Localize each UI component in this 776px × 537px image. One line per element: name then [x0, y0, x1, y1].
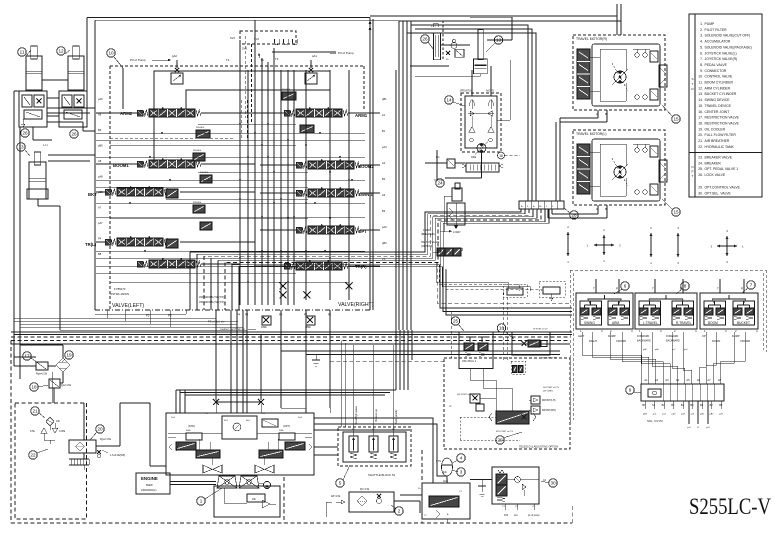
svg-text:2P PORT of C/V: 2P PORT of C/V: [533, 329, 548, 331]
svg-text:L.L.I: L.L.I: [43, 143, 48, 147]
top link to travel motors: [369, 4, 621, 35]
svg-text:BREAKER: BREAKER: [705, 161, 722, 165]
svg-text:ARM CYLINDER: ARM CYLINDER: [705, 86, 731, 90]
svg-text:TELESCO & ADJUSTING OPTION: TELESCO & ADJUSTING OPTION: [519, 446, 558, 449]
svg-text:JOYSTICK VALVE(L): JOYSTICK VALVE(L): [705, 51, 737, 55]
pump regulator center: [222, 416, 278, 439]
svg-text:P: P: [616, 287, 618, 291]
svg-text:26: 26: [422, 37, 428, 42]
cv internal vertical wires: [240, 20, 349, 305]
svg-text:OSTRA JAPAN: OSTRA JAPAN: [110, 292, 129, 296]
svg-text:VALVE(LEFT): VALVE(LEFT): [112, 303, 144, 309]
svg-text:1.: 1.: [700, 22, 703, 26]
svg-text:Pgw=1.5k: Pgw=1.5k: [60, 384, 72, 387]
svg-text:pA4: pA4: [382, 145, 387, 149]
hose-break valve block 26 (right): [59, 91, 87, 127]
svg-text:30.: 30.: [698, 191, 703, 195]
svg-text:B4: B4: [681, 403, 685, 407]
svg-text:7: 7: [750, 283, 753, 288]
engine box: [136, 473, 170, 494]
svg-text:B2: B2: [662, 403, 666, 407]
mid horizontal wires left: [14, 310, 247, 330]
svg-text:FRONT(RH): FRONT(RH): [542, 409, 556, 412]
spool TR(L): [85, 236, 178, 248]
svg-text:A1: A1: [382, 113, 386, 117]
svg-text:17.: 17.: [698, 116, 703, 120]
circle 9: [626, 386, 641, 394]
svg-text:19: 19: [66, 353, 72, 358]
svg-text:T: T: [692, 82, 694, 86]
joystick to connector wires: [582, 332, 745, 384]
bottom dashed verticals: [284, 450, 422, 523]
svg-text:PG: PG: [436, 156, 440, 159]
svg-text:S255LC-V: S255LC-V: [689, 494, 771, 519]
svg-text:TRAVEL MOTOR(R): TRAVEL MOTOR(R): [576, 37, 607, 41]
optsel tank symbol: [470, 480, 492, 497]
svg-text:OIL COOLER: OIL COOLER: [705, 127, 726, 131]
opt pedal valve 1 box: [459, 332, 493, 369]
pump left regulator spools: [169, 430, 220, 458]
svg-text:pA7: pA7: [98, 221, 103, 225]
circle 5: [336, 465, 350, 487]
circle 29: [496, 432, 522, 444]
svg-text:(OPTION): (OPTION): [421, 245, 432, 248]
svg-text:A4: A4: [676, 378, 680, 382]
telesco inner wires: [460, 369, 531, 441]
svg-text:6: 6: [624, 284, 627, 289]
svg-text:2: 2: [398, 509, 401, 514]
svg-text:24.: 24.: [698, 161, 703, 165]
svg-text:PILOT FILTER: PILOT FILTER: [705, 28, 728, 32]
text std opt: [171, 413, 303, 428]
text P3 of Sol: [208, 320, 238, 324]
cv spool row connection lines: [96, 113, 380, 266]
circle 20: [90, 425, 104, 440]
svg-text:6.5k: 6.5k: [30, 430, 35, 433]
svg-text:L.L.I: L.L.I: [431, 25, 436, 28]
tank wires: [53, 372, 150, 470]
svg-text:(2P LINE): (2P LINE): [543, 391, 553, 393]
circle 3: [452, 468, 465, 476]
svg-text:pB1: pB1: [382, 97, 387, 101]
telesco solenoid valve: [489, 411, 536, 424]
swing pg valve: [425, 150, 455, 180]
solenoid pilot dashed lines: [230, 31, 259, 122]
staircase drop wires: [436, 262, 541, 291]
bucket cylinder 13: [410, 17, 512, 76]
svg-text:pB3: pB3: [382, 241, 387, 245]
svg-text:BREAKER VALVE: BREAKER VALVE: [705, 156, 733, 160]
full flow filter 20: [69, 438, 125, 458]
svg-text:11: 11: [20, 50, 25, 55]
svg-text:1: 1: [200, 499, 203, 504]
svg-text:CENTER JOINT: CENTER JOINT: [705, 110, 730, 114]
svg-text:365460L: 365460L: [193, 150, 202, 152]
svg-text:Pp=1.5k: Pp=1.5k: [360, 488, 370, 491]
solenoid relief pA1: [305, 60, 317, 84]
svg-text:365460L: 365460L: [200, 172, 209, 174]
regen valve arm2: [196, 127, 210, 138]
cv left port labels: [98, 97, 103, 256]
pump top wires: [150, 390, 396, 466]
svg-text:13: 13: [496, 38, 502, 43]
connector hooks top center: [240, 31, 297, 45]
telesco port symbols: [531, 396, 556, 414]
svg-text:SV2: SV2: [230, 36, 235, 40]
wire cooler loop: [14, 340, 63, 403]
svg-text:AIR BREATHER: AIR BREATHER: [705, 139, 730, 143]
svg-text:2.: 2.: [700, 28, 703, 32]
circle 15 R: [662, 105, 680, 123]
svg-text:pA6: pA6: [98, 97, 103, 101]
svg-text:365460L: 365460L: [196, 127, 205, 129]
svg-text:18: 18: [31, 385, 37, 390]
text FY86270: [110, 287, 129, 296]
svg-text:B4: B4: [382, 177, 386, 181]
svg-text:P4: P4: [98, 237, 102, 241]
swing feed wires: [445, 60, 510, 178]
pump right regulator spools: [259, 430, 312, 458]
circle 2: [391, 505, 403, 515]
circle 17: [23, 352, 38, 363]
svg-text:Travel high speed: Travel high speed: [355, 405, 358, 425]
svg-text:BACKWARD: BACKWARD: [637, 340, 651, 343]
svg-text:S: S: [691, 77, 693, 81]
svg-text:19.: 19.: [698, 127, 703, 131]
spool straight travel: [137, 258, 201, 268]
travel connector 28: [519, 201, 564, 209]
tank check valves: [30, 423, 66, 444]
cv junction dots: [129, 123, 353, 283]
circle 30: [541, 479, 557, 487]
horizontal bus dashed: [11, 337, 570, 341]
svg-text:A3: A3: [382, 193, 386, 197]
svg-text:TRAVEL MOTOR(L): TRAVEL MOTOR(L): [576, 132, 606, 136]
left option dashed border: [11, 341, 572, 524]
wire cyl11-12 links: [33, 80, 74, 147]
telesco small texts: [449, 387, 560, 433]
svg-text:25.: 25.: [698, 167, 703, 171]
svg-text:FORWARD: FORWARD: [637, 335, 649, 338]
svg-text:(FRONT) B: (FRONT) B: [460, 90, 472, 93]
bucket cylinder block 26: [431, 21, 470, 61]
svg-text:4P5 PORT of C/V: 4P5 PORT of C/V: [496, 431, 514, 433]
circle 4: [452, 454, 465, 463]
svg-text:TRAVEL DEVICE: TRAVEL DEVICE: [705, 104, 732, 108]
svg-text:4: 4: [460, 456, 463, 461]
svg-text:B1: B1: [642, 403, 646, 407]
joystick dashed boundary: [570, 270, 766, 425]
svg-text:FRONT(LH): FRONT(LH): [542, 399, 556, 402]
svg-text:Swing priority: Swing priority: [395, 409, 398, 424]
svg-text:PEDAL VALVE: PEDAL VALVE: [705, 63, 728, 67]
horizontal bus solid: [11, 332, 572, 344]
svg-text:Pgw=1.5k: Pgw=1.5k: [100, 438, 112, 441]
svg-text:20: 20: [97, 427, 103, 432]
svg-text:SWING MOTOR S/I: SWING MOTOR S/I: [220, 328, 245, 332]
svg-text:21: 21: [32, 409, 38, 414]
accumulator 4 3: [436, 458, 453, 476]
joystick valve 7 (BOOM/BUCKET): [700, 279, 758, 343]
svg-text:BUCKET: BUCKET: [737, 321, 750, 325]
spool TR(R): [284, 260, 367, 270]
control valve 10 outer box: [87, 18, 399, 311]
svg-text:3.05k: 3.05k: [59, 430, 66, 433]
swing brake rows: [462, 163, 503, 172]
circle 1: [197, 488, 222, 505]
travel motor (R) 15: [573, 35, 667, 118]
travel supply verticals: [407, 25, 536, 201]
cv right port labels: [382, 97, 387, 261]
svg-text:BKT: BKT: [88, 192, 97, 197]
svg-text:(STD): (STD): [188, 424, 195, 428]
svg-text:330-6415ML(7H)(T/X): 330-6415ML(7H)(T/X): [199, 300, 225, 304]
svg-text:BUCKET CYLINDER: BUCKET CYLINDER: [705, 92, 737, 96]
spool OPT: [296, 224, 367, 234]
svg-text:11.: 11.: [699, 81, 704, 85]
text VALVE(RIGHT): [338, 302, 374, 308]
svg-text:0.7N: 0.7N: [436, 461, 441, 463]
svg-text:LEFT: LEFT: [578, 334, 585, 338]
center joint port boxes: [511, 361, 526, 374]
svg-text:T: T: [717, 287, 719, 291]
svg-text:T: T: [692, 174, 694, 178]
svg-text:16.: 16.: [698, 110, 703, 114]
circle 15 L: [662, 199, 680, 216]
direction arrow D: [677, 226, 680, 265]
svg-text:14.: 14.: [698, 98, 703, 102]
circle 16: [497, 324, 514, 339]
center vertical bundle: [396, 330, 412, 390]
opt sel wires: [502, 504, 540, 517]
svg-text:P3 of Pump: P3 of Pump: [338, 51, 354, 55]
circle 18: [30, 383, 48, 391]
svg-text:T3: T3: [275, 57, 279, 61]
svg-text:3: 3: [460, 470, 463, 475]
svg-text:OPL PDAL 1: OPL PDAL 1: [462, 360, 477, 363]
circle 22: [29, 449, 48, 459]
cv inner dashed pilot line: [110, 100, 247, 140]
svg-text:P4: P4: [237, 313, 241, 317]
main pump symbols: [217, 476, 259, 488]
svg-text:A1: A1: [644, 378, 648, 382]
text pA1: [312, 54, 317, 58]
svg-text:pA2: pA2: [172, 54, 177, 58]
filter wires: [280, 501, 420, 517]
svg-text:CROWD: CROWD: [616, 339, 626, 343]
svg-text:SOLENOID VALVE(PACKAGE): SOLENOID VALVE(PACKAGE): [705, 45, 752, 49]
svg-text:18.: 18.: [698, 121, 703, 125]
boom cylinder 11: [18, 46, 42, 90]
connector port labels: [642, 378, 723, 407]
opt sel valve 30 box: [492, 467, 547, 504]
svg-text:ARM2: ARM2: [120, 111, 133, 116]
svg-text:P: P: [741, 287, 743, 291]
svg-text:1-WAY: 1-WAY: [423, 229, 431, 232]
svg-text:30: 30: [550, 481, 556, 486]
svg-text:22.: 22.: [698, 145, 703, 149]
svg-text:p1 of pump: p1 of pump: [528, 515, 540, 517]
sub-bus to telesco: [281, 351, 560, 366]
circle 8: [676, 282, 689, 294]
svg-text:A7: A7: [707, 378, 711, 382]
spool BOOM1: [113, 158, 201, 168]
svg-text:T2: T2: [226, 58, 230, 62]
svg-text:T1: T1: [261, 58, 265, 62]
circle 26 right: [70, 130, 78, 138]
connector drop wires: [643, 401, 724, 429]
cv check X marks: [280, 283, 353, 299]
shuttle relief 3: [389, 429, 398, 459]
pilot filter 2 box: [331, 488, 394, 512]
switch valve boxes: [433, 248, 463, 256]
text P3 of Pump left: [130, 58, 171, 62]
svg-text:ACC: ACC: [443, 480, 448, 483]
check 180k right: [305, 316, 315, 329]
svg-text:T: T: [652, 287, 654, 291]
svg-text:SHUTTLE BLOCK S1: SHUTTLE BLOCK S1: [368, 473, 396, 477]
svg-text:1.5+0.3k(W5): 1.5+0.3k(W5): [110, 454, 125, 457]
circle 6: [614, 282, 629, 294]
pump right outlet: [314, 408, 447, 483]
control valve inner dashed boundary: [110, 66, 364, 310]
small port boxes above telesco: [503, 281, 565, 301]
svg-text:L.TRAVEL: L.TRAVEL: [643, 321, 658, 325]
svg-text:A2: A2: [655, 378, 659, 382]
svg-text:29.: 29.: [698, 186, 703, 190]
check 180k left: [261, 316, 271, 329]
cv internal horizontal wires: [96, 124, 365, 282]
svg-text:15: 15: [673, 210, 679, 215]
svg-text:LOCK VALVE: LOCK VALVE: [705, 173, 726, 177]
circle 26 bucket: [421, 35, 434, 50]
svg-text:OPT. PEDAL VALVE 1: OPT. PEDAL VALVE 1: [705, 167, 739, 171]
title S255LC-V: [689, 494, 771, 519]
svg-text:ENGINE: ENGINE: [141, 476, 158, 481]
svg-text:6.: 6.: [700, 51, 703, 55]
text VALVE(LEFT): [112, 303, 144, 309]
svg-text:15: 15: [673, 117, 679, 122]
pump outer box: [166, 413, 314, 475]
cv to pump verticals: [216, 310, 330, 413]
circle 10: [107, 49, 123, 68]
spool SWING: [296, 187, 373, 197]
svg-text:3.: 3.: [700, 34, 703, 38]
svg-text:BOOM CYLINDER: BOOM CYLINDER: [705, 81, 734, 85]
circle 26 left: [21, 129, 29, 137]
restriction valve 18: [49, 379, 72, 388]
svg-text:A4: A4: [382, 161, 386, 165]
svg-text:CONNECTOR: CONNECTOR: [705, 69, 727, 73]
svg-text:SV3: SV3: [242, 47, 247, 51]
circle 14: [445, 96, 465, 106]
svg-text:10.: 10.: [698, 75, 703, 79]
shuttle block box: [343, 432, 406, 462]
svg-text:CONTROL VALVE: CONTROL VALVE: [705, 75, 734, 79]
center joint assembly: [504, 292, 558, 361]
circle 21: [31, 407, 45, 418]
svg-text:13.: 13.: [698, 92, 703, 96]
svg-text:86kW: 86kW: [146, 483, 153, 487]
svg-text:OPT.CONTROL VALVE: OPT.CONTROL VALVE: [705, 186, 741, 190]
svg-text:5: 5: [339, 481, 342, 486]
direction arrow A: [567, 225, 570, 264]
svg-text:ARM1: ARM1: [355, 113, 368, 118]
pump internal rails: [168, 433, 312, 465]
oil cooler 19: [56, 358, 70, 372]
svg-text:VALVE(RIGHT): VALVE(RIGHT): [338, 302, 374, 308]
circle 7: [742, 281, 755, 293]
telesco option dashed box: [444, 358, 570, 449]
shuttle feed wires: [341, 341, 393, 437]
svg-text:330-6415ML(7H)(T/X): 330-6415ML(7H)(T/X): [199, 295, 225, 299]
pump drain box: [214, 486, 280, 517]
svg-text:P43: P43: [504, 515, 509, 517]
option area bundle: [437, 262, 572, 358]
direction cross B: [586, 228, 621, 263]
svg-text:15.: 15.: [698, 104, 703, 108]
text T2 T1 T3: [226, 52, 336, 62]
svg-text:8.: 8.: [700, 63, 703, 67]
svg-text:20.: 20.: [698, 133, 703, 137]
svg-text:26.: 26.: [698, 173, 703, 177]
svg-text:P3 of Sol. v/v: P3 of Sol. v/v: [208, 320, 225, 324]
cv top-left frames: [123, 68, 330, 160]
svg-text:SWING: SWING: [584, 321, 595, 325]
svg-text:12: 12: [58, 49, 64, 54]
right bus vertical wires: [396, 21, 411, 330]
legend table: [689, 14, 762, 197]
svg-text:8: 8: [684, 284, 687, 289]
svg-text:pA8: pA8: [98, 175, 103, 179]
text 1-way 2-way switch valve: [421, 229, 461, 248]
svg-text:24: 24: [437, 181, 443, 186]
svg-text:9: 9: [629, 388, 632, 393]
svg-text:RH PORT of C/V: RH PORT of C/V: [542, 358, 558, 360]
travel motor (L) 15: [573, 130, 667, 213]
svg-text:SWING DEVICE: SWING DEVICE: [705, 98, 731, 102]
svg-text:B3: B3: [382, 209, 386, 213]
text 180k swing: [471, 156, 477, 159]
connector 9 box: [641, 384, 724, 401]
arm cylinder 13: [17, 143, 48, 199]
svg-text:SOLENOID VALVE(CUT OFF): SOLENOID VALVE(CUT OFF): [705, 34, 751, 38]
svg-text:RESTRICTION VALVE: RESTRICTION VALVE: [705, 116, 740, 120]
svg-text:UP: UP: [702, 334, 706, 338]
svg-text:18: 18: [499, 154, 503, 158]
svg-text:A8: A8: [718, 378, 722, 382]
svg-text:17: 17: [24, 354, 30, 359]
svg-text:A8: A8: [98, 159, 102, 163]
svg-text:Pressure up: Pressure up: [375, 408, 378, 422]
lock valve wires: [400, 488, 463, 523]
svg-text:CY: CY: [459, 491, 463, 493]
hose-break valve block 26 (left): [19, 91, 47, 127]
direction cross E: [710, 229, 744, 264]
svg-text:4.: 4.: [700, 40, 703, 44]
text shuttle block s1: [368, 473, 396, 477]
pilot staircase wires: [190, 209, 549, 310]
svg-text:P3 of Pump: P3 of Pump: [130, 58, 146, 62]
svg-text:LH PORT of C/V: LH PORT of C/V: [543, 387, 560, 389]
joystick valve 6 (SWING/ARM): [576, 279, 633, 343]
svg-text:TR(L): TR(L): [85, 242, 97, 247]
svg-text:BACKWARD: BACKWARD: [666, 340, 680, 343]
svg-text:P: P: [691, 170, 693, 174]
svg-text:26: 26: [22, 131, 28, 136]
cv bottom ports: [146, 313, 332, 318]
svg-text:ACCUMULATOR: ACCUMULATOR: [705, 40, 731, 44]
